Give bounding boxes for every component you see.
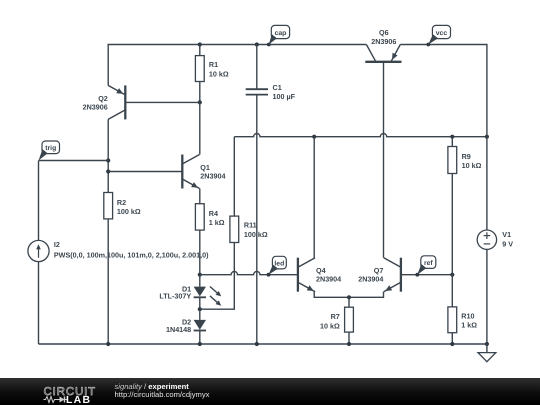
svg-text:Q7: Q7: [374, 266, 384, 275]
svg-text:9 V: 9 V: [502, 239, 513, 248]
net flag cap: [267, 25, 290, 46]
svg-text:100 µF: 100 µF: [273, 92, 296, 101]
svg-text:100 kΩ: 100 kΩ: [244, 230, 268, 239]
wire: [451, 275, 453, 307]
svg-text:ref: ref: [424, 260, 433, 267]
resistor R2: [104, 193, 141, 219]
wire: [200, 272, 298, 275]
node R1 top: [198, 42, 202, 46]
ground: [478, 344, 496, 362]
wire: [199, 102, 201, 154]
voltage source V1: [477, 137, 513, 344]
svg-text:2N3906: 2N3906: [83, 102, 108, 111]
svg-text:10 kΩ: 10 kΩ: [462, 161, 482, 170]
transistor Q7: [358, 258, 401, 292]
net flag ref: [415, 256, 435, 277]
wire: [234, 133, 487, 136]
svg-text:R10: R10: [461, 311, 474, 320]
svg-text:R2: R2: [117, 198, 126, 207]
node V1 ground: [485, 342, 489, 346]
diode D2: [166, 309, 206, 344]
svg-text:2N3904: 2N3904: [316, 275, 341, 284]
node vcc rail: [485, 135, 489, 139]
wire: [39, 343, 487, 345]
net flag trig: [39, 141, 60, 161]
node R9 top: [450, 135, 454, 139]
svg-text:2N3906: 2N3906: [371, 37, 396, 46]
resistor R11: [230, 216, 268, 242]
resistor R10: [448, 307, 477, 344]
svg-text:led: led: [274, 261, 284, 268]
wire: [199, 230, 201, 275]
wire: [38, 262, 40, 344]
svg-text:R7: R7: [331, 312, 340, 321]
svg-text:trig: trig: [45, 145, 56, 152]
svg-text:LAB: LAB: [66, 395, 91, 405]
wire: [108, 171, 182, 173]
current source I2: [28, 240, 209, 261]
svg-text:R1: R1: [209, 60, 218, 69]
resistor R1: [195, 45, 228, 103]
svg-text:100 kΩ: 100 kΩ: [117, 207, 141, 216]
wire: [314, 292, 383, 298]
svg-text:PWS(0,0, 100m,100u, 101m,0, 2,: PWS(0,0, 100m,100u, 101m,0, 2,100u, 2.00…: [54, 250, 209, 259]
svg-text:10 kΩ: 10 kΩ: [209, 69, 229, 78]
svg-text:2N3904: 2N3904: [200, 171, 225, 180]
node R7 ground: [347, 342, 351, 346]
node Q4 collector rail: [312, 135, 316, 139]
net flag vcc: [426, 25, 450, 46]
node C1 ground: [255, 342, 259, 346]
svg-text:1 kΩ: 1 kΩ: [461, 321, 477, 330]
svg-text:cap: cap: [275, 30, 287, 37]
wire: [108, 45, 366, 86]
node D1 D2 junction: [198, 307, 202, 311]
svg-text:R9: R9: [462, 152, 471, 161]
node D2 ground: [198, 342, 202, 346]
net flag led: [267, 256, 287, 276]
LED D1: [159, 275, 221, 310]
svg-text:V1: V1: [502, 230, 511, 239]
svg-text:Q6: Q6: [379, 28, 389, 37]
resistor R9: [448, 137, 482, 275]
resistor R7: [320, 297, 353, 344]
node R2 ground: [106, 342, 110, 346]
wire: [200, 243, 235, 310]
svg-text:1N4148: 1N4148: [166, 325, 191, 334]
wire: [199, 189, 201, 204]
svg-text:R11: R11: [244, 221, 257, 230]
transistor Q6: [365, 28, 401, 62]
svg-text:10 kΩ: 10 kΩ: [320, 321, 340, 330]
wire: [39, 160, 109, 162]
wire: [233, 137, 235, 216]
node R10 ground: [450, 342, 454, 346]
svg-text:C1: C1: [273, 83, 282, 92]
wire: [256, 105, 258, 344]
node trig junction: [106, 158, 110, 162]
node ref R9 junction: [450, 273, 454, 277]
wire: [400, 45, 487, 137]
wire: [38, 161, 40, 241]
wire: [383, 62, 385, 258]
wire: [313, 137, 315, 258]
wire: [107, 119, 109, 192]
wire: [401, 274, 452, 276]
transistor Q2: [83, 85, 200, 119]
svg-text:Q4: Q4: [316, 266, 326, 275]
node C1 top: [255, 42, 259, 46]
svg-text:R4: R4: [209, 209, 218, 218]
transistor Q1: [182, 155, 225, 189]
node Q2 base: [198, 100, 202, 104]
resistor R4: [195, 204, 224, 230]
svg-text:1 kΩ: 1 kΩ: [209, 218, 225, 227]
wire: [107, 219, 109, 344]
svg-text:LTL-307Y: LTL-307Y: [159, 292, 191, 301]
capacitor C1: [246, 45, 296, 106]
svg-text:I2: I2: [54, 240, 60, 249]
transistor Q4: [298, 258, 341, 292]
svg-text:vcc: vcc: [436, 30, 448, 37]
svg-text:2N3904: 2N3904: [358, 275, 383, 284]
node Q1 base junction: [106, 169, 110, 173]
node R7 top: [347, 295, 351, 299]
node R4 D1 junction: [198, 273, 202, 277]
